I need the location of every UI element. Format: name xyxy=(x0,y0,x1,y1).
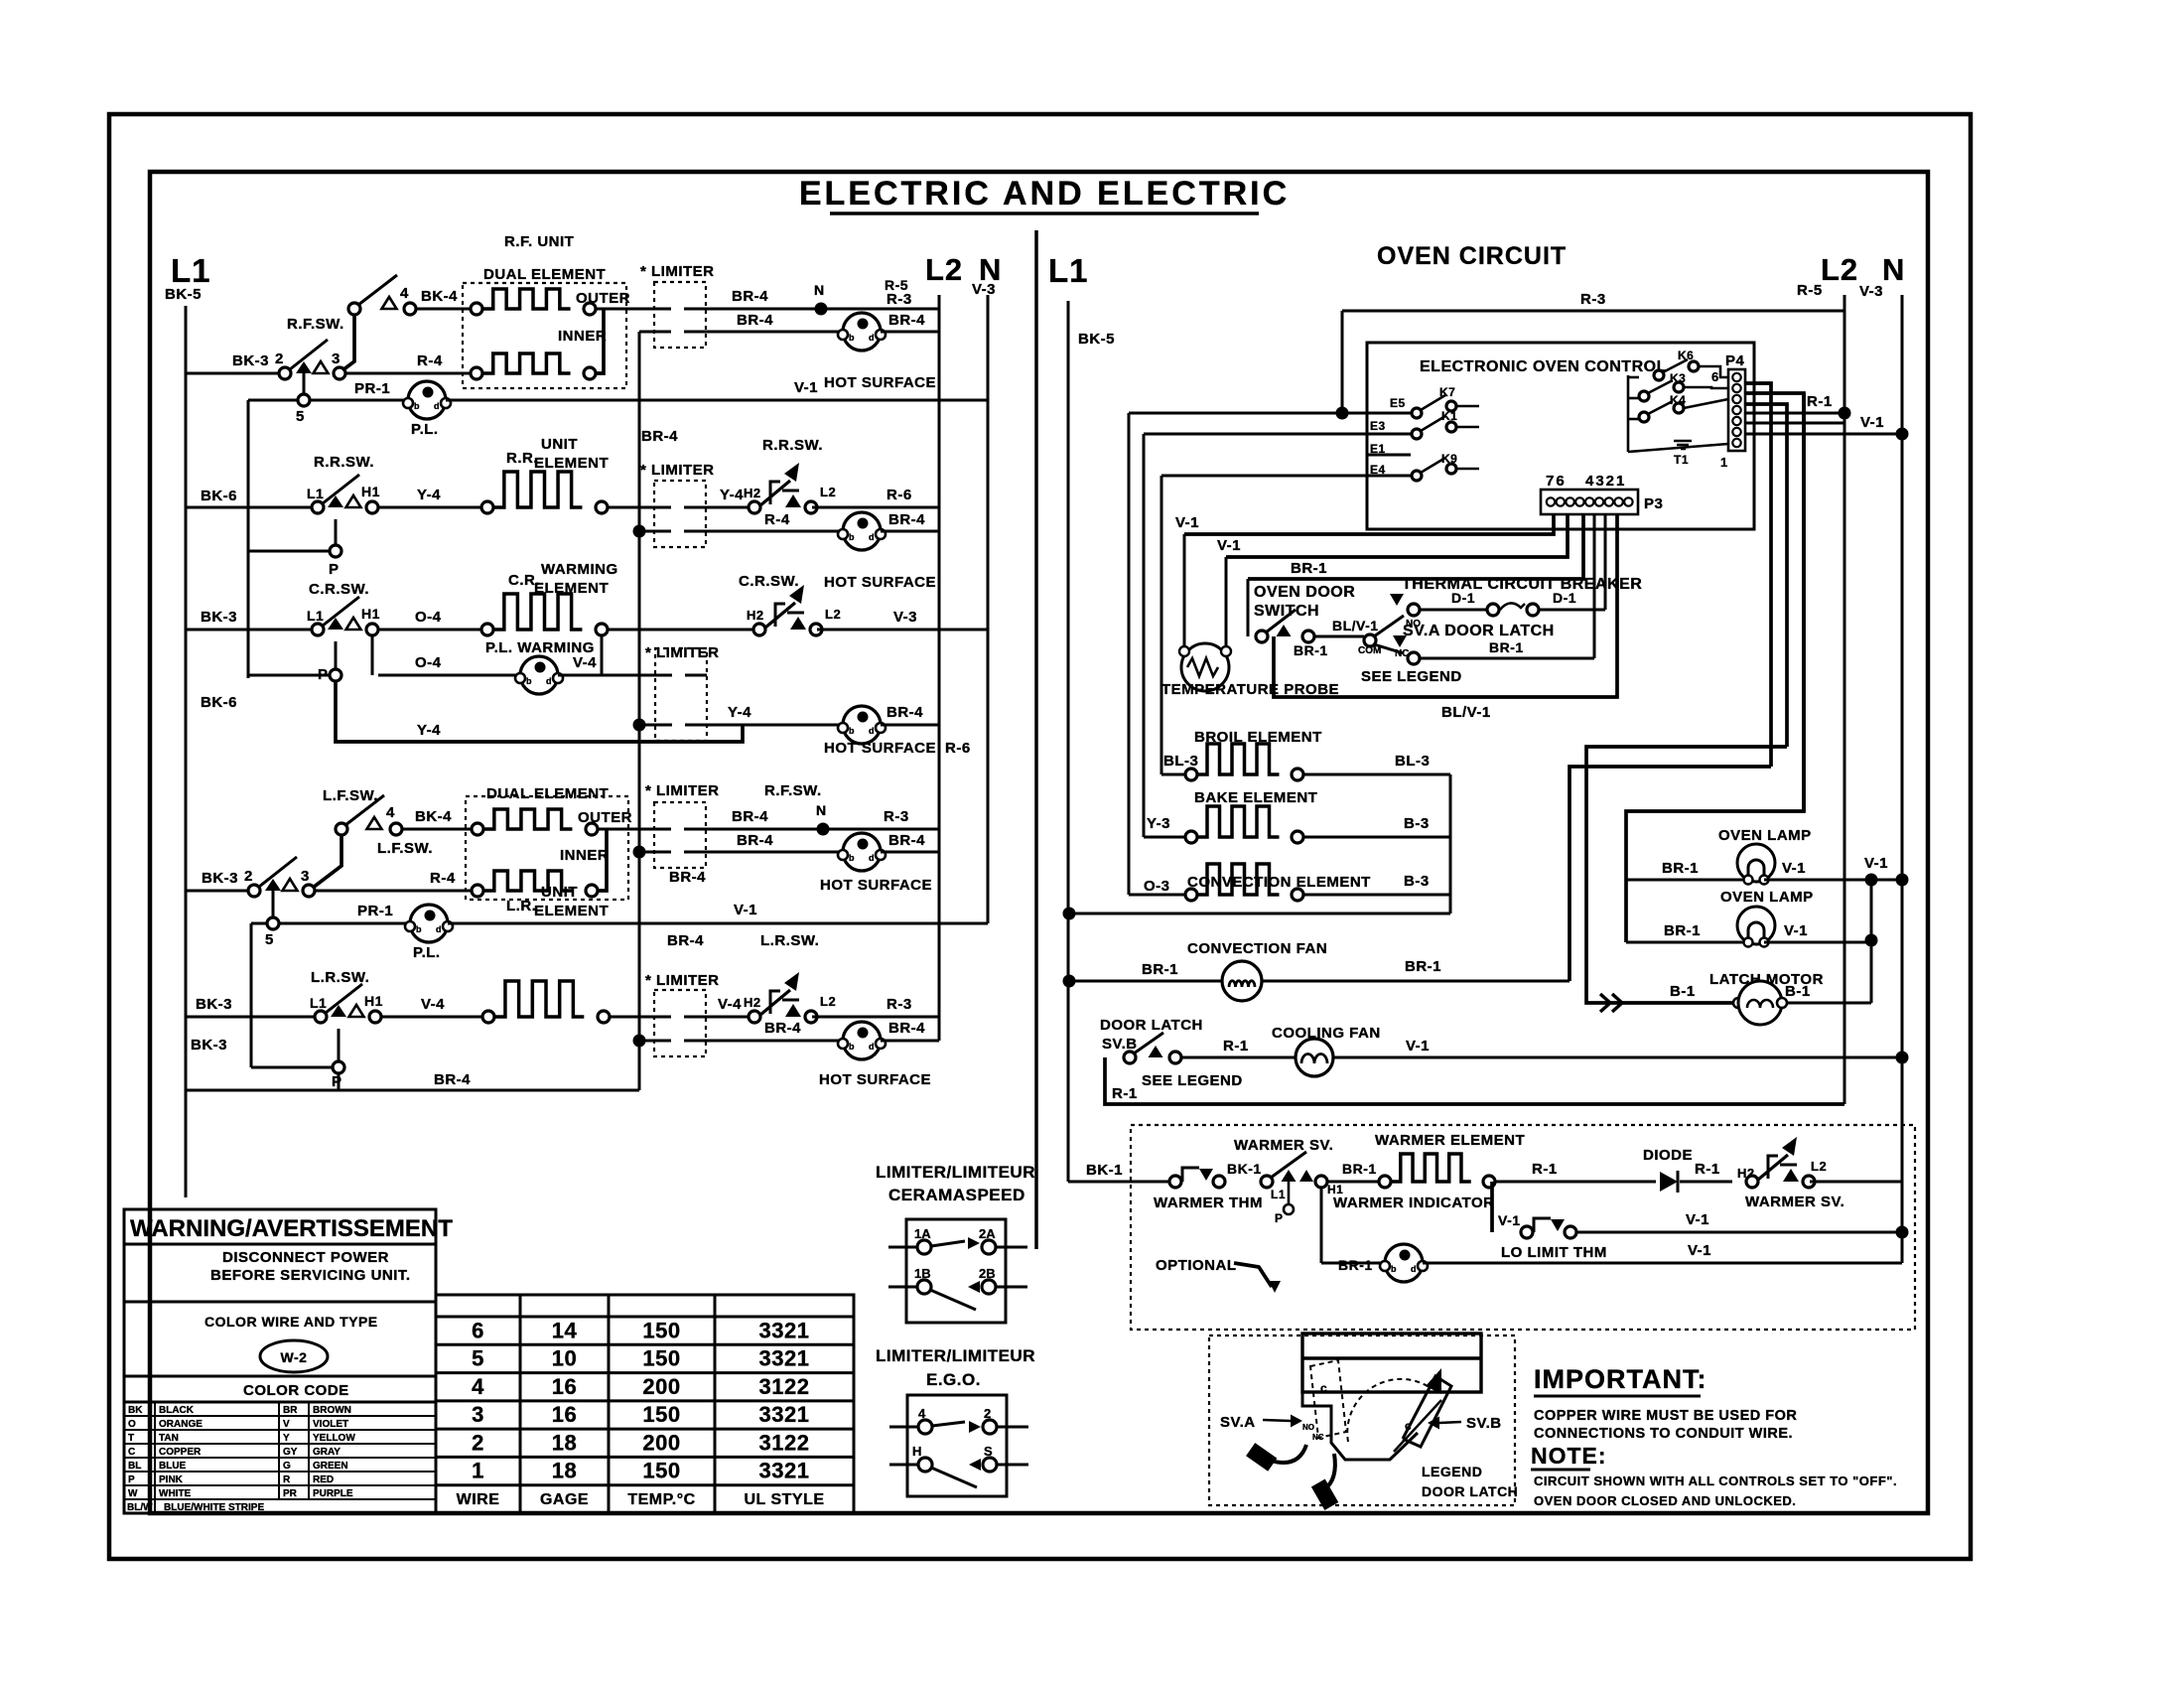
svg-text:R-4: R-4 xyxy=(417,352,443,369)
svg-text:H1: H1 xyxy=(364,993,383,1009)
dual element dashed box LF xyxy=(466,796,628,900)
svg-text:R-3: R-3 xyxy=(884,808,909,825)
svg-text:D-1: D-1 xyxy=(1553,590,1576,606)
svg-text:K9: K9 xyxy=(1441,452,1457,466)
wire BK-3 row CR xyxy=(186,629,312,631)
wire V-1 to N bus 2 xyxy=(448,922,988,925)
resistor LF outer element xyxy=(472,823,483,835)
resistor LF inner element xyxy=(472,885,483,897)
svg-text:E3: E3 xyxy=(1370,419,1386,433)
svg-text:DUAL ELEMENT: DUAL ELEMENT xyxy=(483,266,606,283)
svg-text:L2: L2 xyxy=(1821,252,1858,287)
svg-text:WARMER SV.: WARMER SV. xyxy=(1234,1137,1333,1154)
wire CR row to flag switch xyxy=(608,629,753,631)
indicator hot surface RR xyxy=(843,512,881,550)
svg-text:BR-4: BR-4 xyxy=(764,1020,801,1037)
wire BR-4 to N junction xyxy=(706,308,939,311)
svg-text:b: b xyxy=(849,1042,855,1052)
resistor RF outer element xyxy=(471,303,482,315)
wire element output to limiter xyxy=(596,308,654,311)
svg-text:BL: BL xyxy=(128,1461,141,1472)
wire R-4 inner element feed LF xyxy=(315,890,478,893)
wire R-1 row to L2 bus xyxy=(1745,412,1844,415)
ego legend box xyxy=(907,1395,1007,1496)
electronic oven control box xyxy=(1367,343,1754,529)
transformer T1 xyxy=(1674,441,1692,449)
svg-text:C.R.SW.: C.R.SW. xyxy=(739,573,799,590)
svg-text:GREEN: GREEN xyxy=(313,1461,348,1472)
wire L2 left bus xyxy=(938,295,941,1041)
svg-text:BR-1: BR-1 xyxy=(1338,1257,1373,1273)
svg-text:BK-4: BK-4 xyxy=(415,808,452,825)
limiter dashed box xyxy=(654,802,706,868)
resistor convection element xyxy=(1185,889,1197,901)
wire T1 row to P4 pin1 xyxy=(1628,444,1728,452)
svg-text:SEE LEGEND: SEE LEGEND xyxy=(1361,668,1462,685)
svg-text:BK-1: BK-1 xyxy=(1227,1161,1262,1177)
wire V-1 to N bus lo limit xyxy=(1576,1231,1902,1234)
svg-text:BR-4: BR-4 xyxy=(641,428,678,445)
wire PR-1 pilot row 2 xyxy=(267,917,279,929)
svg-text:H2: H2 xyxy=(744,486,761,500)
svg-text:CONNECTIONS TO CONDUIT WIRE.: CONNECTIONS TO CONDUIT WIRE. xyxy=(1534,1426,1793,1442)
svg-text:c: c xyxy=(1320,1381,1327,1395)
svg-text:ORANGE: ORANGE xyxy=(159,1419,203,1430)
svg-text:P3: P3 xyxy=(1644,495,1663,512)
svg-text:IMPORTANT:: IMPORTANT: xyxy=(1534,1364,1706,1394)
svg-text:Y-4: Y-4 xyxy=(728,704,751,721)
svg-text:BK-4: BK-4 xyxy=(421,288,458,305)
svg-text:OVEN LAMP: OVEN LAMP xyxy=(1718,827,1812,844)
svg-text:BR-4: BR-4 xyxy=(737,312,773,329)
wire hot surface row CR xyxy=(633,719,646,732)
svg-text:B-3: B-3 xyxy=(1404,873,1430,890)
svg-text:L2: L2 xyxy=(1811,1159,1827,1174)
svg-text:2: 2 xyxy=(472,1430,484,1455)
wire Y-4 long pilot return xyxy=(336,681,743,742)
svg-text:COPPER: COPPER xyxy=(159,1447,202,1458)
limiter dashed box xyxy=(654,282,706,348)
wire L2 right bus xyxy=(1843,295,1846,1104)
svg-text:150: 150 xyxy=(642,1459,680,1483)
svg-text:BL-3: BL-3 xyxy=(1163,753,1198,770)
svg-text:H2: H2 xyxy=(744,995,761,1010)
wire P4 pin row 2 xyxy=(1745,393,1804,811)
svg-text:LEGEND: LEGEND xyxy=(1422,1464,1482,1479)
wire BL-3 broil return xyxy=(1303,773,1450,776)
wire element to limiter RR xyxy=(608,506,654,509)
wire B-3 convection return xyxy=(1303,894,1450,897)
wire BR-1 to warmer element xyxy=(1327,1181,1385,1184)
svg-text:d: d xyxy=(1411,1264,1417,1274)
svg-text:V-1: V-1 xyxy=(1784,922,1808,939)
svg-text:C.R.SW.: C.R.SW. xyxy=(309,581,369,598)
svg-text:UL STYLE: UL STYLE xyxy=(744,1491,824,1508)
svg-text:V-1: V-1 xyxy=(1688,1242,1711,1259)
svg-text:V-4: V-4 xyxy=(573,654,597,671)
svg-text:H1: H1 xyxy=(361,484,380,499)
svg-text:4: 4 xyxy=(472,1374,484,1399)
node P LR pilot xyxy=(333,1061,344,1073)
svg-text:TAN: TAN xyxy=(159,1433,179,1444)
svg-text:SEE LEGEND: SEE LEGEND xyxy=(1142,1072,1243,1089)
svg-text:N: N xyxy=(814,282,825,298)
svg-text:L2: L2 xyxy=(825,607,841,622)
wire element to limiter LR xyxy=(610,1016,654,1019)
wire BL/V-1 return frame xyxy=(1274,514,1617,697)
svg-text:VIOLET: VIOLET xyxy=(313,1419,348,1430)
svg-text:WARMER INDICATOR: WARMER INDICATOR xyxy=(1333,1194,1494,1211)
svg-text:BR-4: BR-4 xyxy=(667,932,704,949)
resistor bake element xyxy=(1185,831,1197,843)
svg-text:P.L.: P.L. xyxy=(411,421,439,438)
wire R-1 to cooling fan xyxy=(1181,1056,1296,1059)
svg-text:TEMP.°C: TEMP.°C xyxy=(627,1491,695,1508)
svg-text:GRAY: GRAY xyxy=(313,1447,341,1458)
switch SV.B door latch xyxy=(1124,1052,1136,1063)
svg-text:DISCONNECT POWER: DISCONNECT POWER xyxy=(222,1249,389,1266)
svg-text:WIRE: WIRE xyxy=(457,1491,500,1508)
switch K9 relay xyxy=(1412,471,1422,481)
wire R-3 to L2 bus xyxy=(812,1016,939,1019)
svg-text:150: 150 xyxy=(642,1402,680,1427)
legend latch mechanism drawing xyxy=(1302,1333,1481,1392)
wire CR element drop to warming row xyxy=(601,635,604,675)
svg-text:NC: NC xyxy=(1395,648,1409,659)
svg-text:BR-1: BR-1 xyxy=(1142,961,1178,978)
svg-text:3321: 3321 xyxy=(759,1459,810,1483)
svg-text:RED: RED xyxy=(313,1474,334,1485)
svg-text:OVEN CIRCUIT: OVEN CIRCUIT xyxy=(1377,242,1567,270)
svg-text:1: 1 xyxy=(1720,455,1728,470)
svg-text:d: d xyxy=(434,401,440,411)
wire L1 left bus xyxy=(185,306,188,1090)
svg-text:COLOR WIRE AND TYPE: COLOR WIRE AND TYPE xyxy=(205,1314,378,1330)
svg-text:L1: L1 xyxy=(310,995,327,1011)
svg-text:V-1: V-1 xyxy=(1406,1038,1430,1054)
wire latch motor feed xyxy=(1586,747,1787,1003)
svg-text:BR-4: BR-4 xyxy=(732,288,768,305)
dual element dashed box RF xyxy=(463,283,626,388)
wire Y-4 to RR element xyxy=(378,506,487,509)
svg-text:BK-3: BK-3 xyxy=(196,996,232,1013)
svg-text:E.G.O.: E.G.O. xyxy=(926,1370,981,1389)
svg-text:LIMITER/LIMITEUR: LIMITER/LIMITEUR xyxy=(876,1163,1035,1182)
svg-text:DOOR LATCH: DOOR LATCH xyxy=(1422,1483,1518,1499)
svg-text:V-4: V-4 xyxy=(718,996,742,1013)
svg-text:N: N xyxy=(1882,252,1905,287)
wire BK-6 row RR xyxy=(186,506,312,509)
svg-text:d: d xyxy=(869,853,875,863)
wire LF inner return riser xyxy=(598,829,607,891)
svg-text:* LIMITER: * LIMITER xyxy=(645,782,720,799)
wire V-4 out to LR flag switch xyxy=(706,1016,749,1019)
svg-text:L1: L1 xyxy=(1271,1188,1286,1201)
svg-text:18: 18 xyxy=(552,1459,577,1483)
wire PR-1 pilot row xyxy=(298,394,310,406)
svg-text:INNER: INNER xyxy=(560,847,609,864)
wire riser to LF upper switch xyxy=(313,835,341,888)
color wire and type box xyxy=(124,1302,436,1376)
svg-text:BR-4: BR-4 xyxy=(434,1071,471,1088)
svg-text:V-1: V-1 xyxy=(1498,1212,1521,1228)
svg-text:BR-1: BR-1 xyxy=(1405,958,1441,975)
svg-text:BR-1: BR-1 xyxy=(1662,860,1699,877)
svg-text:PR-1: PR-1 xyxy=(354,380,390,397)
svg-text:WARMER THM: WARMER THM xyxy=(1154,1194,1263,1211)
svg-text:BR-1: BR-1 xyxy=(1294,642,1328,658)
motor cooling fan xyxy=(1296,1039,1333,1076)
node N junction dot xyxy=(815,303,828,316)
svg-text:DOOR LATCH: DOOR LATCH xyxy=(1100,1017,1203,1034)
wire R-3 top loop xyxy=(1342,310,1844,313)
svg-text:Y-4: Y-4 xyxy=(417,487,441,503)
svg-text:d: d xyxy=(546,676,552,686)
svg-text:b: b xyxy=(849,532,855,542)
svg-text:ELEMENT: ELEMENT xyxy=(534,455,609,472)
svg-text:COOLING FAN: COOLING FAN xyxy=(1272,1025,1381,1042)
svg-text:b: b xyxy=(526,676,532,686)
svg-text:P: P xyxy=(332,1073,342,1090)
svg-text:BR-4: BR-4 xyxy=(669,869,706,886)
svg-text:R: R xyxy=(283,1474,291,1485)
svg-text:R-5: R-5 xyxy=(1797,282,1823,299)
svg-text:V-1: V-1 xyxy=(1175,514,1199,531)
svg-text:DIODE: DIODE xyxy=(1643,1147,1693,1164)
svg-text:200: 200 xyxy=(642,1374,680,1399)
wire V-1 to N bus xyxy=(446,399,988,402)
svg-text:G: G xyxy=(283,1461,291,1472)
svg-text:R.F.SW.: R.F.SW. xyxy=(764,782,822,799)
wire E3 row xyxy=(1144,433,1411,436)
wire P3 drop pin7 V-1 row xyxy=(1184,514,1554,534)
svg-text:INNER: INNER xyxy=(558,328,607,345)
indicator P.L. warming light xyxy=(520,656,558,694)
svg-text:3: 3 xyxy=(301,868,310,885)
svg-text:P4: P4 xyxy=(1725,352,1745,369)
svg-text:BR-4: BR-4 xyxy=(888,511,925,528)
svg-text:H2: H2 xyxy=(747,608,764,623)
wire R-4 inner element feed xyxy=(345,372,477,375)
svg-text:YELLOW: YELLOW xyxy=(313,1433,355,1444)
svg-text:O: O xyxy=(128,1419,136,1430)
svg-text:R-3: R-3 xyxy=(1580,291,1606,308)
svg-text:SV.A DOOR LATCH: SV.A DOOR LATCH xyxy=(1403,623,1555,639)
wire P4 pin row 5 xyxy=(1745,422,1844,425)
svg-text:BEFORE SERVICING UNIT.: BEFORE SERVICING UNIT. xyxy=(210,1267,411,1284)
ceramaspeed legend box xyxy=(906,1219,1006,1323)
svg-text:SV.B: SV.B xyxy=(1102,1036,1138,1052)
svg-text:V-1: V-1 xyxy=(734,902,757,918)
wire convection feed xyxy=(1129,894,1185,897)
wire to N bus xyxy=(1810,1181,1902,1184)
switch warmer SW xyxy=(1261,1176,1273,1188)
svg-text:SV.A: SV.A xyxy=(1220,1414,1256,1431)
svg-text:LO LIMIT THM: LO LIMIT THM xyxy=(1501,1244,1607,1261)
svg-text:WARMER SV.: WARMER SV. xyxy=(1745,1193,1844,1210)
svg-text:OPTIONAL: OPTIONAL xyxy=(1156,1257,1237,1274)
svg-text:CIRCUIT SHOWN WITH ALL CONTROL: CIRCUIT SHOWN WITH ALL CONTROLS SET TO "… xyxy=(1534,1473,1897,1488)
svg-text:BL/W: BL/W xyxy=(127,1502,153,1513)
svg-text:OVEN DOOR CLOSED AND UNLOCKED.: OVEN DOOR CLOSED AND UNLOCKED. xyxy=(1534,1493,1796,1508)
svg-text:HOT SURFACE: HOT SURFACE xyxy=(824,740,936,757)
svg-text:Y-4: Y-4 xyxy=(720,487,744,503)
svg-text:V-3: V-3 xyxy=(893,609,917,626)
wire V-1 row to N bus xyxy=(1745,433,1902,436)
svg-text:d: d xyxy=(869,333,875,343)
svg-text:L2: L2 xyxy=(820,994,836,1009)
svg-text:R-6: R-6 xyxy=(945,740,971,757)
wire breaker riser to P3 xyxy=(1604,514,1607,610)
switch C.R.SW. xyxy=(312,624,324,635)
svg-text:BR: BR xyxy=(283,1405,298,1416)
wire N left bus xyxy=(987,295,990,923)
svg-text:BK-3: BK-3 xyxy=(232,352,269,369)
wire convection fan row xyxy=(1063,975,1076,988)
switch R.F.SW. upper blade xyxy=(348,303,360,315)
wire LF output to limiter xyxy=(598,828,654,831)
svg-text:16: 16 xyxy=(552,1402,577,1427)
wire V-4 to LR element xyxy=(381,1016,488,1019)
svg-text:E5: E5 xyxy=(1390,396,1406,410)
svg-text:V-1: V-1 xyxy=(1217,537,1241,554)
svg-text:CERAMASPEED: CERAMASPEED xyxy=(888,1186,1025,1204)
limiter dashed box xyxy=(655,648,707,741)
wire R-6 to L2 bus xyxy=(812,506,939,509)
svg-text:GY: GY xyxy=(283,1447,298,1458)
wire R-1 to diode xyxy=(1495,1181,1656,1184)
svg-text:* LIMITER: * LIMITER xyxy=(645,644,720,661)
svg-text:b: b xyxy=(1391,1264,1397,1274)
svg-text:5: 5 xyxy=(296,408,305,425)
svg-text:4321: 4321 xyxy=(1585,473,1626,490)
svg-text:BK-3: BK-3 xyxy=(191,1037,227,1053)
svg-text:R-1: R-1 xyxy=(1532,1161,1558,1178)
wire bake feed xyxy=(1144,836,1185,839)
wire BK-3 row LF switch xyxy=(186,890,248,893)
wire RR hot surface row xyxy=(633,525,646,538)
svg-text:W: W xyxy=(128,1488,138,1499)
svg-text:PR-1: PR-1 xyxy=(357,903,393,919)
wire V-1 indicator to N bus xyxy=(1423,1262,1902,1265)
svg-text:10: 10 xyxy=(552,1346,577,1371)
limiter dashed box xyxy=(654,990,706,1056)
wire LR hot surface row xyxy=(633,1035,646,1048)
svg-text:d: d xyxy=(869,532,875,542)
svg-text:H: H xyxy=(912,1444,921,1459)
svg-text:V-1: V-1 xyxy=(1864,855,1888,872)
svg-text:BR-1: BR-1 xyxy=(1342,1161,1377,1177)
svg-text:b: b xyxy=(414,401,420,411)
svg-text:BR-4: BR-4 xyxy=(737,832,773,849)
svg-text:P: P xyxy=(1275,1211,1284,1225)
svg-text:5: 5 xyxy=(472,1346,484,1371)
svg-text:R-6: R-6 xyxy=(887,487,912,503)
svg-text:V-1: V-1 xyxy=(1686,1211,1709,1228)
svg-text:R-3: R-3 xyxy=(887,996,912,1013)
switch K7 relay xyxy=(1412,408,1422,418)
svg-text:R-1: R-1 xyxy=(1112,1085,1138,1102)
svg-text:V: V xyxy=(283,1419,290,1430)
svg-text:D-1: D-1 xyxy=(1451,590,1475,606)
svg-text:L.R.SW.: L.R.SW. xyxy=(760,932,819,949)
svg-text:3321: 3321 xyxy=(759,1318,810,1342)
switch L.R.SW. xyxy=(315,1011,327,1023)
svg-text:200: 200 xyxy=(642,1430,680,1455)
svg-text:BLUE: BLUE xyxy=(159,1461,187,1472)
svg-text:6: 6 xyxy=(472,1318,484,1342)
svg-text:UNIT: UNIT xyxy=(541,436,578,453)
optional warmer dashed box xyxy=(1131,1125,1915,1330)
svg-text:L2: L2 xyxy=(925,252,963,287)
indicator P.L. pilot light xyxy=(408,381,446,419)
svg-text:NC: NC xyxy=(1312,1433,1324,1442)
wire P3 drop pin6 V-1 row xyxy=(1226,514,1568,557)
svg-text:BLUE/WHITE STRIPE: BLUE/WHITE STRIPE xyxy=(164,1502,264,1513)
svg-text:R.F. UNIT: R.F. UNIT xyxy=(504,233,574,250)
svg-text:PINK: PINK xyxy=(159,1474,184,1485)
wire BK-4 xyxy=(416,308,477,311)
svg-text:PURPLE: PURPLE xyxy=(313,1488,353,1499)
svg-text:* LIMITER: * LIMITER xyxy=(645,972,720,989)
svg-text:T: T xyxy=(128,1433,134,1444)
inner border frame xyxy=(150,172,1928,1513)
svg-text:OVEN DOOR: OVEN DOOR xyxy=(1254,584,1355,601)
outer border frame xyxy=(109,114,1971,1559)
svg-text:b: b xyxy=(849,333,855,343)
svg-text:WARMING: WARMING xyxy=(541,561,618,578)
svg-text:E4: E4 xyxy=(1370,463,1386,477)
svg-text:BL-3: BL-3 xyxy=(1395,753,1430,770)
svg-text:3122: 3122 xyxy=(759,1430,810,1455)
wire E4 row xyxy=(1161,475,1411,478)
svg-text:R-4: R-4 xyxy=(764,511,790,528)
svg-text:WARNING/AVERTISSEMENT: WARNING/AVERTISSEMENT xyxy=(130,1215,453,1242)
svg-text:ELEMENT: ELEMENT xyxy=(534,903,609,919)
wire B-3 bake return xyxy=(1303,836,1450,839)
color code table xyxy=(124,1402,436,1513)
node P RR pilot xyxy=(330,545,341,557)
svg-text:BK-6: BK-6 xyxy=(201,694,237,711)
svg-text:V-3: V-3 xyxy=(972,281,996,298)
svg-text:150: 150 xyxy=(642,1346,680,1371)
svg-text:4: 4 xyxy=(386,804,395,821)
motor convection fan xyxy=(1222,961,1262,1001)
wire N right bus xyxy=(1901,295,1904,1263)
svg-text:2: 2 xyxy=(244,868,253,885)
svg-text:b: b xyxy=(416,924,422,934)
svg-text:BK: BK xyxy=(128,1405,143,1416)
svg-text:R.R.SW.: R.R.SW. xyxy=(314,454,374,471)
svg-text:* LIMITER: * LIMITER xyxy=(640,462,715,479)
indicator hot surface CR xyxy=(843,706,881,744)
wire BK-3 row RF switch xyxy=(186,372,279,375)
svg-text:N: N xyxy=(816,802,827,818)
svg-text:d: d xyxy=(869,726,875,736)
svg-text:P.L.: P.L. xyxy=(413,944,441,961)
legend latch wire leads xyxy=(1271,1445,1306,1463)
svg-text:HOT SURFACE: HOT SURFACE xyxy=(824,374,936,391)
svg-text:4: 4 xyxy=(400,285,409,302)
wire gage table xyxy=(436,1295,854,1513)
wire hot surface row LF xyxy=(633,846,646,859)
svg-text:3122: 3122 xyxy=(759,1374,810,1399)
svg-text:CONVECTION ELEMENT: CONVECTION ELEMENT xyxy=(1187,874,1371,891)
svg-text:3: 3 xyxy=(472,1402,484,1427)
svg-text:d: d xyxy=(869,1042,875,1052)
svg-text:V-1: V-1 xyxy=(794,379,818,396)
divider line between range and oven circuits xyxy=(1034,230,1038,1249)
